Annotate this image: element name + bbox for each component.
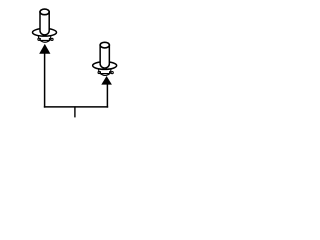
fastener F2 (right stud) [93,42,117,75]
leader line from A2 [106,84,108,108]
bracket center tick [74,106,76,117]
arrowhead A2 (points at F2) [101,76,112,85]
arrowhead A1 (points at F1) [39,44,50,54]
bracket horizontal wire [44,106,108,108]
leader line from A1 [44,53,46,108]
fastener F1 (left stud) [33,9,57,42]
